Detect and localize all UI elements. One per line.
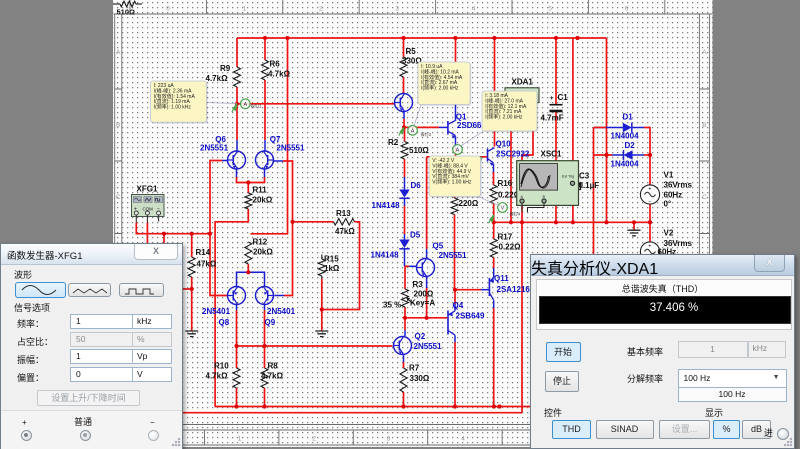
oscilloscope XSC1 icon — [517, 161, 579, 206]
svg-text:R9: R9 — [220, 64, 231, 73]
svg-text:+: + — [648, 244, 651, 250]
svg-text:XFG1: XFG1 — [137, 185, 158, 194]
svg-text:0: 0 — [166, 6, 170, 13]
svg-text:探钉4: 探钉4 — [510, 211, 521, 218]
wire Q9 collector to rail — [264, 310, 266, 368]
svg-text:Q9: Q9 — [265, 318, 276, 327]
wire R3 bottom junction — [404, 307, 406, 318]
wire node to R13 — [293, 221, 334, 223]
svg-text:D2: D2 — [625, 141, 636, 150]
svg-text:Q10: Q10 — [496, 140, 512, 149]
transistor Q9 2N5401 — [256, 287, 274, 305]
resistor R16 — [490, 185, 497, 204]
wire Q10 emitter to R16 — [493, 164, 495, 172]
transistor Q5 2N5551 — [417, 259, 435, 277]
transistor Q6 2N5551 — [228, 151, 246, 169]
svg-text:+: + — [550, 95, 554, 102]
svg-text:I(频率): 1.00 kHz: I(频率): 1.00 kHz — [154, 104, 192, 111]
svg-text:36Vrms: 36Vrms — [664, 181, 693, 190]
svg-text:4.7kΩ: 4.7kΩ — [261, 372, 284, 381]
svg-text:5: 5 — [548, 6, 552, 13]
transistor Q7 2N5551 — [256, 151, 274, 169]
wire Q5 collector up to bias node — [426, 157, 428, 249]
svg-text:200Ω: 200Ω — [414, 290, 434, 299]
svg-text:2N5401: 2N5401 — [202, 307, 231, 316]
dialog: function generator XFG1 — [0, 243, 183, 449]
svg-text:4: 4 — [472, 6, 476, 13]
svg-text:1: 1 — [238, 436, 242, 443]
measurement tooltip box probe3 — [483, 92, 538, 132]
svg-text:R7: R7 — [409, 364, 420, 373]
svg-text:510Ω: 510Ω — [117, 8, 136, 17]
svg-text:XDA1: XDA1 — [512, 78, 534, 87]
wire Q2 emitter to R7 — [403, 355, 405, 362]
source V2 36Vrms — [640, 242, 659, 261]
transistor Q10 2SC2922 (power NPN) — [487, 149, 489, 162]
svg-text:2: 2 — [319, 6, 323, 13]
svg-text:I(频率): 2.00 kHz: I(频率): 2.00 kHz — [421, 85, 459, 92]
wire feedback column x287 to R12 — [251, 38, 288, 234]
junction dots — [263, 36, 267, 40]
svg-text:2SC2922: 2SC2922 — [496, 150, 530, 159]
wire R11 top — [247, 183, 249, 194]
svg-text:2SB649: 2SB649 — [456, 312, 485, 321]
wire current mirror to Q2 base y346 — [237, 345, 393, 347]
resistor 220ohm bias — [451, 198, 458, 215]
wire R9 column / Q6 collector — [236, 38, 238, 67]
wire Q11 base y289.7 — [455, 289, 481, 291]
diode D6 1N4148 — [399, 190, 409, 198]
source V1 36Vrms — [640, 185, 659, 204]
wire bottom rail A y406.5 — [215, 406, 532, 408]
wire Q6/Q7 emitter join y182.5 — [237, 177, 265, 183]
wire top rail right drop x606.5 — [606, 38, 608, 222]
resistor 510ohm top-left — [113, 3, 120, 5]
svg-text:探钉2: 探钉2 — [421, 131, 432, 138]
wire Q1 base y127.4 — [405, 126, 440, 128]
svg-text:20kΩ: 20kΩ — [253, 196, 273, 205]
resistor R9 — [234, 67, 241, 87]
svg-text:R3: R3 — [413, 280, 424, 289]
wire R17 bottom to Q11 emitter — [493, 258, 495, 269]
svg-text:I(频率): 2.00 kHz: I(频率): 2.00 kHz — [485, 114, 523, 121]
voltage probe 4 — [489, 215, 494, 223]
svg-text:D1: D1 — [623, 113, 634, 122]
svg-text:4: 4 — [461, 436, 465, 443]
svg-text:4.7mF: 4.7mF — [541, 114, 564, 123]
resistor R12 — [245, 242, 252, 264]
wire Q3 base y102.5 — [237, 103, 395, 105]
resistor R2 — [401, 142, 408, 160]
svg-text:1N4148: 1N4148 — [372, 201, 401, 210]
potentiometer R3 200ohm — [402, 289, 409, 307]
svg-text:Key=A: Key=A — [410, 299, 435, 308]
wire Q2 collector to Q4 base y317.8 — [405, 317, 448, 319]
probe 3 leader line — [460, 131, 483, 146]
diode D2 1N4004 — [624, 150, 633, 160]
wire R17 top — [493, 222, 495, 239]
svg-text:2N5401: 2N5401 — [267, 307, 296, 316]
wire R16 bottom to output node — [493, 204, 495, 223]
capacitor C1 4.7mF — [550, 104, 563, 106]
transistor Q3 input (circle) — [395, 94, 413, 112]
svg-text:V2: V2 — [664, 229, 674, 238]
diode D5 1N4148 — [399, 240, 409, 249]
svg-text:D6: D6 — [411, 181, 422, 190]
current probe 1 — [232, 104, 237, 112]
svg-text:0.22Ω: 0.22Ω — [499, 243, 522, 252]
resistor R8 — [261, 368, 268, 388]
svg-text:Q7: Q7 — [270, 135, 281, 144]
svg-text:Q11: Q11 — [494, 274, 509, 283]
svg-text:3: 3 — [387, 436, 391, 443]
svg-text:Q4: Q4 — [453, 301, 464, 310]
wire XDA1 pin1 column x511 — [510, 131, 512, 222]
probe 2 leader line — [414, 105, 421, 126]
resistor R14 — [188, 257, 195, 277]
svg-text:R13: R13 — [336, 209, 351, 218]
ground near R14 — [185, 331, 198, 337]
ground at output — [628, 230, 641, 236]
resistor R11 — [245, 193, 252, 209]
svg-text:2: 2 — [312, 436, 316, 443]
svg-text:R2: R2 — [388, 138, 399, 147]
waveform group — [14, 268, 32, 281]
svg-text:1N4004: 1N4004 — [611, 160, 640, 169]
wire Q4 emitter drop — [454, 290, 456, 304]
svg-text:B: B — [116, 122, 120, 129]
resistor R7 — [400, 368, 407, 392]
svg-text:C: C — [702, 194, 707, 201]
svg-text:4.7kΩ: 4.7kΩ — [268, 70, 291, 79]
wire V1 to V2 — [649, 204, 651, 242]
wire Q6 collector pin — [236, 140, 238, 152]
capacitor C3 0.1uF — [574, 183, 581, 190]
transistor Q4 2SB649 (power PNP) — [447, 311, 449, 335]
wire Q2 collector — [404, 318, 406, 330]
svg-text:0°: 0° — [664, 200, 672, 209]
wire D2 row y155 — [594, 154, 613, 156]
wire Q6 base pin — [222, 160, 228, 162]
resistor R5 — [400, 57, 407, 77]
svg-text:2N5551: 2N5551 — [276, 144, 305, 153]
wire Q7 emitter pin — [264, 169, 266, 177]
svg-text:4.7kΩ: 4.7kΩ — [206, 74, 229, 83]
current probe 3 — [477, 157, 482, 165]
wire Q7 base to Q9 base column x292 — [283, 161, 293, 296]
svg-text:47kΩ: 47kΩ — [335, 227, 355, 236]
svg-text:3: 3 — [395, 6, 399, 13]
wire Q4 collector to rail — [454, 335, 456, 342]
svg-text:R14: R14 — [196, 248, 211, 257]
svg-text:R5: R5 — [406, 47, 417, 56]
resistor R6 — [262, 60, 269, 80]
svg-text:2N5551: 2N5551 — [414, 342, 443, 351]
svg-text:6: 6 — [625, 6, 629, 13]
wire R12 bottom to Q8/Q9 emitters — [247, 264, 249, 272]
ground near R15 — [315, 331, 328, 337]
wire R3 column — [404, 266, 406, 289]
svg-text:510Ω: 510Ω — [409, 146, 429, 155]
svg-text:Q2: Q2 — [415, 332, 426, 341]
svg-text:Ext Trig: Ext Trig — [562, 175, 574, 179]
svg-text:V: V — [501, 206, 505, 212]
svg-text:Q8: Q8 — [219, 318, 230, 327]
wire XFG1 plus to input row y233.7 — [136, 223, 210, 234]
wire bias node y156.8 — [427, 156, 488, 158]
schematic canvas — [113, 0, 713, 447]
svg-text:+: + — [648, 187, 651, 193]
distortion analyzer XDA1 icon — [505, 88, 539, 103]
wire 220ohm column to Q4 emitter/Q11 base node — [454, 157, 456, 198]
svg-text:1: 1 — [243, 6, 247, 13]
wire Q5 emitter down to y317.8 — [426, 276, 428, 288]
transistor Q2 2N5551 — [394, 337, 412, 355]
svg-text:1N4148: 1N4148 — [371, 251, 400, 260]
wire Q5 base — [405, 265, 409, 267]
svg-text:220Ω: 220Ω — [459, 199, 479, 208]
resistor R10 — [233, 368, 240, 388]
svg-text:D5: D5 — [410, 231, 421, 240]
svg-text:B: B — [702, 122, 706, 129]
svg-text:R16: R16 — [498, 179, 513, 188]
wire Q7 base pin — [274, 160, 284, 162]
sheet zone ticks bottom — [205, 430, 503, 445]
wire R14 column — [191, 234, 193, 257]
wire R2/D6/D5 column — [404, 127, 406, 141]
sheet zone ticks top — [130, 0, 665, 14]
diode D1 1N4004 — [623, 123, 632, 133]
wire Q8 collector pin — [236, 304, 238, 310]
wire R5 column — [403, 38, 405, 57]
svg-text:C: C — [116, 194, 121, 201]
wire Q8/Q9 emitter tee — [237, 272, 265, 278]
sheet border frame — [114, 14, 713, 445]
wire Q3 emitter down to probe junction — [403, 111, 405, 119]
svg-text:1N4004: 1N4004 — [611, 132, 640, 141]
svg-text:XSC1: XSC1 — [541, 150, 562, 159]
wire Q10 collector column — [494, 38, 496, 147]
wire output row y222.3 — [494, 221, 650, 223]
measurement tooltip box probe1 — [152, 82, 208, 123]
wire Q1 collector column — [455, 38, 457, 104]
svg-text:R6: R6 — [270, 60, 281, 69]
wire XFG1 COM down — [146, 223, 148, 245]
svg-text:C1: C1 — [558, 93, 569, 102]
svg-text:47kΩ: 47kΩ — [197, 260, 217, 269]
svg-text:2SA1216: 2SA1216 — [497, 285, 531, 294]
svg-text:0.1µF: 0.1µF — [579, 181, 600, 190]
svg-text:Q1: Q1 — [456, 112, 467, 121]
svg-text:4.7kΩ: 4.7kΩ — [206, 372, 229, 381]
dialog: distortion analyzer XDA1 — [530, 254, 795, 449]
svg-text:R10: R10 — [214, 362, 229, 371]
svg-text:A: A — [702, 49, 707, 56]
probe 1 leader line — [206, 102, 237, 105]
wire R6 column / Q7 collector — [264, 38, 266, 60]
svg-text:V1: V1 — [664, 171, 674, 180]
current probe 2 — [399, 127, 404, 135]
transistor Q8 2N5401 — [228, 287, 246, 305]
svg-text:330Ω: 330Ω — [410, 374, 430, 383]
svg-text:−: − — [648, 199, 651, 205]
wire Q6 base to input node — [210, 161, 228, 296]
function generator XFG1 terminal block — [132, 195, 165, 217]
wire Q9 base pin — [275, 295, 285, 297]
svg-text:A: A — [456, 148, 460, 154]
wire XDA1 pin2 to scope A column x522 — [522, 103, 533, 413]
svg-text:R12: R12 — [253, 238, 268, 247]
wire ground stem at output — [633, 222, 635, 230]
svg-text:C3: C3 — [579, 172, 590, 181]
transistor Q11 2SA1216 (power PNP) — [488, 278, 490, 296]
svg-text:R17: R17 — [498, 233, 513, 242]
svg-text:A: A — [116, 49, 121, 56]
wire D1 row y127.5 — [594, 127, 613, 129]
wire bottom rail B y412.7 — [183, 412, 522, 414]
svg-text:A: A — [243, 102, 247, 108]
wire C1 column — [555, 38, 557, 104]
svg-text:Q5: Q5 — [433, 242, 444, 251]
probe 4 leader line — [478, 197, 500, 207]
measurement tooltip box probe4 — [430, 157, 482, 198]
wire Q8 collector to rail — [236, 310, 238, 368]
wire top supply rail — [237, 37, 607, 39]
svg-text:R8: R8 — [268, 362, 279, 371]
svg-text:35 %: 35 % — [383, 301, 401, 310]
svg-text:1kΩ: 1kΩ — [324, 264, 340, 273]
wire R13 right to R15 bottom — [322, 222, 360, 310]
svg-text:2SD66: 2SD66 — [457, 121, 482, 130]
svg-text:R15: R15 — [324, 255, 339, 264]
svg-text:V(频率): 1.00 kHz: V(频率): 1.00 kHz — [432, 179, 472, 186]
wire scope ext-trig column x572.9 — [572, 38, 574, 161]
svg-text:Q6: Q6 — [215, 135, 226, 144]
transistor Q1 2SD66 (power NPN) — [447, 121, 449, 135]
wire R11 bottom to Q8 base column x215 — [215, 209, 248, 407]
resistor R13 — [334, 219, 355, 226]
wire R15 to ground — [321, 279, 323, 331]
svg-text:A: A — [411, 128, 415, 134]
svg-text:60Hz: 60Hz — [664, 191, 683, 200]
wire R7 to rail — [403, 392, 405, 407]
wire hidden to R14 node y289 — [182, 288, 192, 290]
svg-text:探钉1: 探钉1 — [251, 103, 262, 110]
resistor R17 — [490, 239, 497, 258]
wire D1 feed column x593.5 — [593, 128, 595, 254]
svg-text:2N5551: 2N5551 — [200, 144, 229, 153]
svg-text:R11: R11 — [253, 186, 268, 195]
wire Q11 collector to rail — [493, 300, 495, 308]
wire V1 top lead — [649, 155, 651, 185]
wire Q7 collector pin — [264, 140, 266, 152]
wire Q9 collector pin — [264, 304, 266, 310]
svg-text:2N5551: 2N5551 — [439, 251, 468, 260]
wire Q1 emitter down — [455, 136, 457, 148]
measurement tooltip box probe2 — [419, 63, 471, 105]
svg-text:20kΩ: 20kΩ — [253, 248, 273, 257]
resistor R15 — [321, 255, 323, 260]
wire Q6 emitter pin — [236, 169, 238, 177]
wire drop to hidden network x164 — [163, 234, 165, 244]
